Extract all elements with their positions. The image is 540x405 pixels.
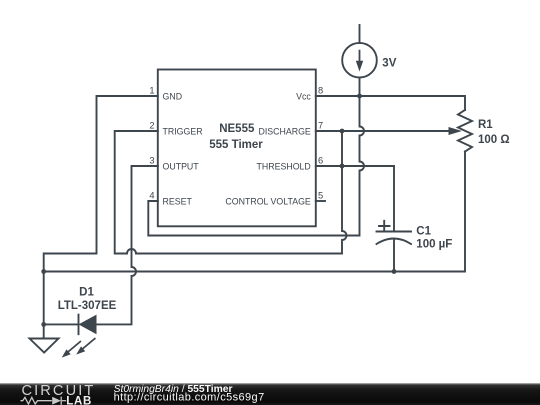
svg-text:6: 6 <box>318 156 323 166</box>
svg-text:2: 2 <box>149 121 154 131</box>
svg-text:CONTROL VOLTAGE: CONTROL VOLTAGE <box>225 197 311 207</box>
svg-text:1: 1 <box>149 86 154 96</box>
svg-text:100 Ω: 100 Ω <box>478 134 510 146</box>
svg-text:5: 5 <box>318 191 323 201</box>
svg-text:http://circuitlab.com/c5s69g7: http://circuitlab.com/c5s69g7 <box>114 391 265 403</box>
svg-text:4: 4 <box>149 191 154 201</box>
svg-text:RESET: RESET <box>163 197 193 207</box>
svg-text:DISCHARGE: DISCHARGE <box>258 127 310 137</box>
svg-text:555 Timer: 555 Timer <box>209 139 263 151</box>
svg-text:100 µF: 100 µF <box>416 239 452 251</box>
svg-text:D1: D1 <box>79 287 94 299</box>
svg-text:C1: C1 <box>416 225 431 237</box>
svg-text:OUTPUT: OUTPUT <box>163 162 200 172</box>
svg-text:3V: 3V <box>382 57 396 69</box>
svg-text:LTL-307EE: LTL-307EE <box>58 300 117 312</box>
svg-text:TRIGGER: TRIGGER <box>163 127 203 137</box>
svg-text:8: 8 <box>318 86 323 96</box>
svg-text:R1: R1 <box>478 119 493 131</box>
svg-text:LAB: LAB <box>66 395 92 405</box>
svg-text:Vcc: Vcc <box>296 92 311 102</box>
svg-text:7: 7 <box>318 121 323 131</box>
svg-text:THRESHOLD: THRESHOLD <box>257 162 311 172</box>
svg-text:GND: GND <box>163 92 183 102</box>
svg-text:NE555: NE555 <box>219 123 255 135</box>
svg-text:3: 3 <box>149 156 154 166</box>
